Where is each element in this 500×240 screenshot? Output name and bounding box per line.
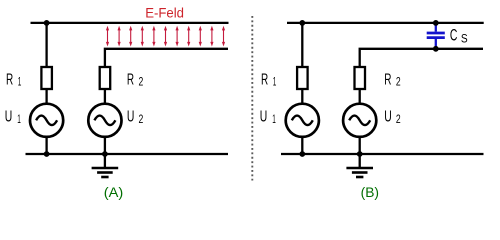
divider: dotted separator line	[251, 16, 253, 181]
E-field arrows (11 double-headed)	[106, 26, 225, 47]
resistor R2 (circuit B)	[355, 67, 366, 89]
resistor R1 (circuit B)	[297, 67, 308, 89]
svg-text:U: U	[260, 109, 268, 126]
wire: circuit A victim line (second conductor) with corner to R2	[105, 49, 228, 68]
svg-text:1: 1	[18, 77, 22, 89]
node: junction dot B capacitor bottom	[433, 46, 439, 52]
wire: A R2 to U2	[104, 89, 106, 104]
node: junction dot B top (R1 tap)	[299, 20, 305, 26]
wire: B from top line down to R1	[301, 23, 303, 68]
wire: B U1 to bottom rail	[301, 137, 303, 154]
wire: A from top line down to R1	[45, 23, 47, 68]
svg-text:(A): (A)	[104, 184, 124, 200]
svg-text:R: R	[6, 71, 13, 88]
AC source U1 (circuit A)	[30, 104, 63, 137]
svg-text:2: 2	[396, 77, 401, 89]
svg-text:S: S	[461, 31, 468, 45]
wire: B R1 to U1	[301, 89, 303, 104]
svg-text:U: U	[384, 109, 392, 126]
svg-text:2: 2	[396, 114, 401, 126]
resistor R2 (circuit A)	[100, 67, 111, 89]
wire: circuit A top source line	[31, 22, 229, 24]
svg-text:(B): (B)	[361, 184, 379, 200]
wire: A U1 to bottom rail	[45, 137, 47, 154]
wire: B U2 to bottom rail	[359, 137, 361, 154]
svg-text:U: U	[5, 109, 12, 126]
wire: circuit B top source line	[287, 22, 484, 24]
svg-text:R: R	[127, 71, 134, 88]
svg-text:R: R	[261, 71, 268, 88]
wire: A U2 to bottom rail	[104, 137, 106, 154]
wire: A R1 to U1	[45, 89, 47, 104]
wire: circuit B victim line (second conductor) with corner to R2	[360, 49, 483, 68]
node: junction dot B capacitor top	[433, 20, 439, 26]
ground (circuit A)	[92, 154, 119, 177]
svg-text:2: 2	[139, 114, 144, 126]
AC source U2 (circuit B)	[343, 104, 376, 137]
ground (circuit B)	[346, 154, 373, 177]
svg-text:1: 1	[17, 114, 21, 126]
wire: B R2 to U2	[359, 89, 361, 104]
node: junction dot B bottom middle	[357, 151, 363, 157]
node: junction dot A bottom left	[44, 151, 50, 157]
wire: circuit B bottom return rail	[281, 153, 484, 155]
svg-text:1: 1	[272, 114, 276, 126]
AC source U2 (circuit A)	[88, 104, 121, 137]
capacitor CS (stray capacitance, blue)	[427, 23, 445, 49]
svg-text:1: 1	[273, 77, 277, 89]
svg-text:C: C	[450, 25, 458, 44]
node: junction dot B bottom left	[299, 151, 305, 157]
node: junction dot A bottom middle	[102, 151, 108, 157]
wire: circuit A bottom return rail	[26, 153, 229, 155]
AC source U1 (circuit B)	[286, 104, 319, 137]
node: junction dot A top (R1 tap)	[44, 20, 50, 26]
svg-text:U: U	[127, 109, 134, 126]
svg-text:R: R	[384, 71, 391, 88]
resistor R1 (circuit A)	[41, 67, 52, 89]
svg-text:E-Feld: E-Feld	[145, 5, 184, 20]
svg-text:2: 2	[139, 77, 144, 89]
